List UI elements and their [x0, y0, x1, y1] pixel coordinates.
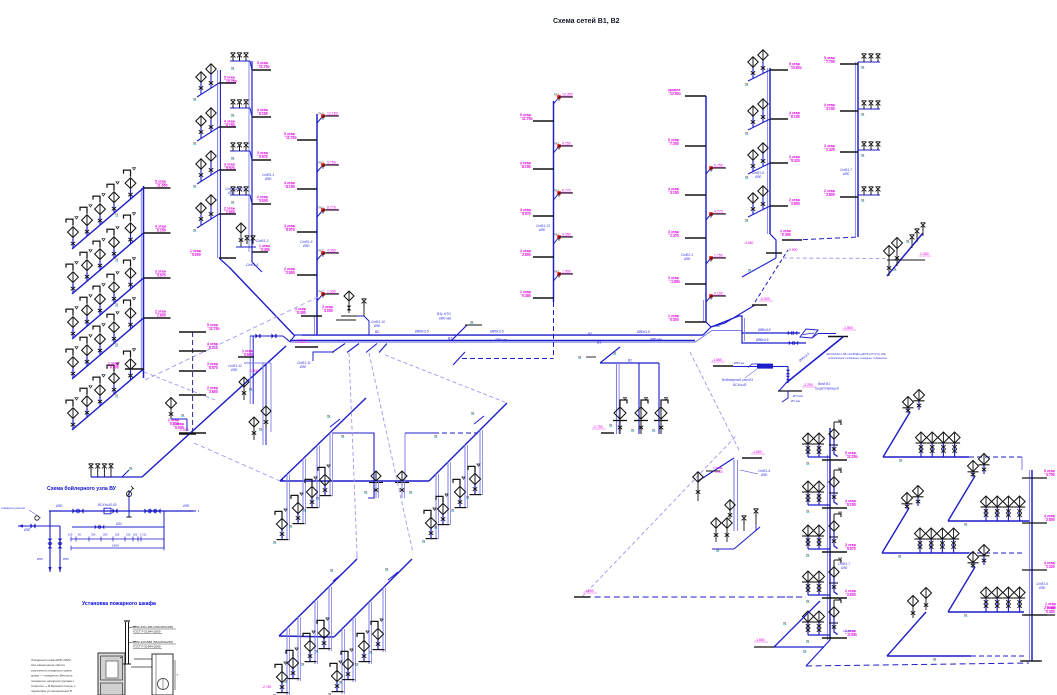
- svg-text:6.770: 6.770: [562, 189, 571, 193]
- svg-text:12.350: 12.350: [562, 93, 573, 97]
- svg-text:0.300: 0.300: [670, 318, 679, 322]
- water meter unit В1: [711, 358, 839, 403]
- corner group basins and taps: [884, 223, 932, 276]
- svg-text:Ø50: Ø50: [760, 473, 767, 477]
- svg-text:Ø80х3,5: Ø80х3,5: [636, 330, 650, 334]
- bottom middle comb C5: [887, 588, 1026, 662]
- upper basement comb with wash basins: [273, 398, 507, 544]
- riser take-off stubs under main: [297, 344, 387, 370]
- fire cabinet installation detail: [31, 600, 179, 695]
- svg-text:8.150: 8.150: [847, 503, 856, 507]
- svg-text:Ø80х3,5: Ø80х3,5: [757, 328, 771, 332]
- svg-text:3.000: 3.000: [259, 199, 268, 203]
- svg-text:Ø50: Ø50: [230, 368, 237, 372]
- svg-text:5.570: 5.570: [226, 167, 235, 171]
- svg-text:0.450: 0.450: [522, 294, 531, 298]
- svg-text:Ø50: Ø50: [842, 172, 849, 176]
- svg-text:Ø50: Ø50: [683, 257, 690, 261]
- svg-text:В1у НТО: В1у НТО: [437, 312, 451, 316]
- svg-text:0.150: 0.150: [714, 292, 723, 296]
- fire riser СтВ1-9 with hydrant outlets: [284, 112, 339, 336]
- svg-text:7.790: 7.790: [826, 60, 835, 64]
- svg-text:1.420: 1.420: [1046, 565, 1055, 569]
- svg-text:1.470: 1.470: [670, 234, 679, 238]
- svg-text:-2.750: -2.750: [593, 425, 603, 429]
- svg-text:стволом — В Верхней секции с: стволом — В Верхней секции с: [31, 684, 76, 688]
- svg-text:Ø80х3,5: Ø80х3,5: [755, 338, 769, 342]
- svg-text:11.790: 11.790: [209, 327, 220, 331]
- svg-text:Ø80 мм: Ø80 мм: [649, 338, 662, 342]
- long dashed bottom main D8: [806, 661, 1040, 666]
- svg-text:2.800: 2.800: [791, 202, 800, 206]
- apartment comb C4: [948, 545, 1056, 618]
- svg-text:переводом установленной В: переводом установленной В: [31, 689, 72, 693]
- svg-text:Ø50: Ø50: [62, 557, 69, 561]
- svg-text:АКСОНОМ 2 АВ.+4А.ВОДА+ДРУБ (СТ: АКСОНОМ 2 АВ.+4А.ВОДА+ДРУБ (СТЛ) № 25Е: [825, 352, 886, 356]
- hidden riser with floor branches: [168, 323, 220, 433]
- svg-text:4.150: 4.150: [670, 191, 679, 195]
- svg-text:ПК-?: ПК-?: [554, 234, 560, 237]
- svg-text:1.300: 1.300: [920, 252, 929, 256]
- svg-text:100: 100: [133, 532, 138, 536]
- svg-text:Ø50: Ø50: [538, 228, 545, 232]
- svg-text:ШПК-320 ВЗБ (540х650х230): ШПК-320 ВЗБ (540х650х230): [133, 640, 173, 644]
- svg-text:Ø50: Ø50: [182, 504, 189, 508]
- svg-text:2.800: 2.800: [1046, 518, 1055, 522]
- title: Схема сетей В1, В2: [553, 17, 620, 25]
- svg-text:4.750: 4.750: [1046, 473, 1055, 477]
- svg-text:8.150: 8.150: [157, 229, 166, 233]
- svg-text:СтВ1-?: СтВ1-?: [843, 629, 854, 633]
- svg-text:пожарного напорного рукава с: пожарного напорного рукава с: [31, 679, 75, 683]
- dashed riser D3: [349, 353, 357, 553]
- svg-text:1.420: 1.420: [826, 148, 835, 152]
- svg-text:Ø50 вв: Ø50 вв: [733, 361, 744, 365]
- dashed feed to lower comb D2: [194, 443, 280, 481]
- svg-text:СтВ1-3: СтВ1-3: [256, 239, 269, 243]
- long dashed basement main D7: [574, 589, 806, 597]
- svg-text:2.800: 2.800: [209, 390, 218, 394]
- svg-text:Схема бойлерного узла ВУ: Схема бойлерного узла ВУ: [47, 485, 117, 492]
- svg-text:-0.300: -0.300: [249, 369, 259, 373]
- svg-text:Ø50: Ø50: [1038, 586, 1045, 590]
- svg-text:0.450: 0.450: [297, 311, 306, 315]
- right riser СтВ1-7 with five floors: [780, 420, 858, 666]
- svg-text:5.420: 5.420: [791, 159, 800, 163]
- svg-text:7.250: 7.250: [670, 142, 679, 146]
- riser СтВ2-1 right of center: [668, 88, 726, 322]
- svg-text:СтВ1-2: СтВ1-2: [234, 187, 246, 191]
- riser СтВ1-2 column of paired wash basins: [190, 64, 238, 258]
- svg-text:Ø80х3,5: Ø80х3,5: [489, 330, 504, 334]
- valve assembly СтВ1-10 above main: [322, 291, 385, 335]
- svg-text:10.250: 10.250: [226, 80, 237, 84]
- left riser group СтВ1-1 with 5 floors of wash basins: [66, 168, 215, 430]
- svg-text:Ø50: Ø50: [23, 528, 30, 532]
- svg-text:ВСХ№40-50: ВСХ№40-50: [98, 503, 117, 507]
- diagonal feed pipe to shower group: [142, 346, 286, 477]
- dashed bypass to riser H: [453, 302, 554, 365]
- svg-text:250: 250: [91, 532, 96, 536]
- svg-text:2.800: 2.800: [226, 211, 235, 215]
- svg-text:-1.300: -1.300: [296, 339, 306, 343]
- svg-text:4.150: 4.150: [826, 107, 835, 111]
- svg-text:ПК-?: ПК-?: [319, 162, 325, 165]
- incoming main diagonal Ø80: [786, 337, 888, 383]
- svg-text:для размещения одного: для размещения одного: [31, 663, 65, 667]
- dashed link to roof tank group: [783, 237, 885, 259]
- riser СтВ1-8 with paired basins: [742, 50, 802, 277]
- svg-text:Ø??мм: Ø??мм: [792, 394, 803, 398]
- svg-text:0.000: 0.000: [192, 253, 201, 257]
- svg-text:ПК-?: ПК-?: [554, 271, 560, 274]
- svg-text:СтВ1-5: СтВ1-5: [246, 263, 259, 267]
- svg-text:-1.650: -1.650: [752, 450, 762, 454]
- svg-text:0.450: 0.450: [782, 233, 791, 237]
- svg-text:-2.750: -2.750: [262, 685, 272, 689]
- svg-text:2.800: 2.800: [847, 593, 856, 597]
- svg-text:Ø80 мм: Ø80 мм: [494, 338, 508, 342]
- svg-text:9.750: 9.750: [562, 142, 571, 146]
- dashed riser D4: [369, 353, 413, 553]
- svg-text:подключение подземных пожарных: подключение подземных пожарных гидрантов: [828, 356, 888, 360]
- far right riser СтВ1-6: [1022, 469, 1055, 661]
- svg-text:0.000: 0.000: [715, 470, 723, 474]
- svg-text:Схема сетей В1, В2: Схема сетей В1, В2: [553, 17, 620, 25]
- svg-text:17,62: 17,62: [140, 532, 147, 536]
- svg-text:0.000: 0.000: [175, 426, 184, 430]
- svg-text:11.790: 11.790: [259, 65, 270, 69]
- svg-text:8.150: 8.150: [286, 185, 295, 189]
- svg-text:-0.900: -0.900: [788, 248, 798, 252]
- svg-text:5.570: 5.570: [259, 155, 268, 159]
- svg-text:0.450: 0.450: [1046, 610, 1055, 614]
- svg-text:существующий: существующий: [815, 387, 839, 391]
- lower basement comb: [262, 553, 412, 695]
- svg-text:Ø50: Ø50: [302, 244, 310, 248]
- svg-text:4.350: 4.350: [327, 249, 336, 253]
- svg-text:ПК-?: ПК-?: [554, 94, 560, 97]
- svg-text:В1: В1: [448, 337, 452, 341]
- svg-text:ГОСТ Р 51844-2009: ГОСТ Р 51844-2009: [133, 630, 161, 634]
- svg-text:ШПК-320 НЗБ (300х300х300): ШПК-320 НЗБ (300х300х300): [133, 625, 173, 629]
- svg-text:Ø50: Ø50: [55, 504, 62, 508]
- svg-text:ПК-?: ПК-?: [554, 143, 560, 146]
- apartment comb C3: [882, 486, 1022, 559]
- svg-text:-1.650: -1.650: [584, 589, 594, 593]
- svg-text:6.150: 6.150: [791, 115, 800, 119]
- svg-text:3.000: 3.000: [324, 309, 333, 313]
- svg-text:ГОСТ Р 51844-2009: ГОСТ Р 51844-2009: [133, 645, 161, 649]
- dashed riser D5: [385, 355, 507, 403]
- svg-text:Ø50: Ø50: [754, 175, 761, 179]
- svg-text:12.150: 12.150: [327, 112, 338, 116]
- svg-text:2.800: 2.800: [826, 193, 835, 197]
- three pendant wash basins on В1: [578, 347, 668, 434]
- svg-text:Ø32: Ø32: [115, 522, 122, 526]
- group СтВ1-4 basement fixtures: [693, 450, 770, 552]
- svg-text:5.570: 5.570: [157, 274, 166, 278]
- svg-text:Ввод В1: Ввод В1: [818, 382, 830, 386]
- svg-text:Ø50: Ø50: [840, 566, 847, 570]
- riser СтВ1-9 with shower rows: [824, 54, 880, 237]
- svg-text:В2: В2: [375, 330, 379, 334]
- svg-text:1.950: 1.950: [562, 270, 571, 274]
- svg-text:5.570: 5.570: [286, 228, 295, 232]
- svg-text:2.800: 2.800: [522, 253, 531, 257]
- svg-text:Пожарный шкаф ШПК-320М: Пожарный шкаф ШПК-320М: [31, 658, 71, 662]
- svg-text:5.750: 5.750: [714, 164, 723, 168]
- svg-text:Ø? мм: Ø? мм: [790, 399, 800, 403]
- svg-text:8.150: 8.150: [522, 165, 531, 169]
- svg-text:-2.250: -2.250: [803, 383, 813, 387]
- svg-text:1400: 1400: [112, 543, 119, 547]
- svg-text:11.750: 11.750: [522, 117, 533, 121]
- dashed hidden main D1: [145, 296, 320, 380]
- svg-text:8.150: 8.150: [259, 112, 268, 116]
- svg-text:ПК-?: ПК-?: [319, 291, 325, 294]
- svg-text:Ø50: Ø50: [264, 177, 272, 181]
- svg-text:ПК-?: ПК-?: [319, 113, 325, 116]
- svg-text:крана — пожарного Вентиль,: крана — пожарного Вентиль,: [31, 674, 73, 678]
- branch -1.300 near main start: [295, 339, 318, 348]
- svg-text:-0.500: -0.500: [760, 297, 770, 301]
- svg-text:Водомерный узел В1: Водомерный узел В1: [722, 378, 753, 382]
- group of 4 showers: [89, 428, 196, 477]
- boiler unit schematic: [1, 485, 199, 572]
- svg-text:-1.850: -1.850: [712, 358, 722, 362]
- svg-text:6.770: 6.770: [327, 206, 336, 210]
- svg-text:100: 100: [68, 532, 73, 536]
- svg-text:11.750: 11.750: [286, 136, 297, 140]
- svg-text:ПК-?: ПК-?: [319, 250, 325, 253]
- svg-text:-1.850: -1.850: [843, 326, 853, 330]
- main distribution lines В1 and В2: [250, 330, 703, 345]
- svg-text:пожаротушение: пожаротушение: [1, 506, 25, 510]
- svg-text:В1: В1: [628, 358, 632, 362]
- svg-text:ПК-?: ПК-?: [319, 207, 325, 210]
- svg-text:5.570: 5.570: [209, 366, 218, 370]
- svg-text:2.800: 2.800: [286, 271, 295, 275]
- svg-text:11.250: 11.250: [847, 455, 858, 459]
- comb branch -1.650 below right column: [754, 601, 824, 653]
- svg-text:В2: В2: [588, 332, 592, 336]
- svg-text:2.800: 2.800: [157, 314, 166, 318]
- svg-text:0.450: 0.450: [261, 248, 270, 252]
- svg-text:-0.650: -0.650: [744, 241, 754, 245]
- dashed run D6b: [582, 435, 737, 597]
- svg-text:1.950: 1.950: [327, 290, 336, 294]
- svg-text:12.500: 12.500: [670, 92, 681, 96]
- svg-text:Установка пожарного шкафа: Установка пожарного шкафа: [82, 600, 156, 607]
- svg-text:11.650: 11.650: [157, 184, 168, 188]
- branch В1у НТО: [437, 312, 482, 340]
- apartment comb C1: [883, 390, 1022, 471]
- svg-text:Ø50: Ø50: [299, 365, 306, 369]
- svg-text:0.000: 0.000: [110, 366, 119, 370]
- fire riser СтВ1-13 center: [520, 93, 573, 303]
- svg-text:9.750: 9.750: [327, 161, 336, 165]
- svg-text:10.600: 10.600: [791, 66, 802, 70]
- svg-text:4.770: 4.770: [714, 210, 723, 214]
- svg-text:комплекта пожарного крана: комплекта пожарного крана: [31, 668, 72, 672]
- basement wash basins СтВ1-12: [228, 336, 271, 445]
- svg-text:0.000: 0.000: [244, 353, 253, 357]
- svg-text:ВСХ№40: ВСХ№40: [733, 383, 747, 387]
- svg-text:-1.650: -1.650: [755, 638, 765, 642]
- svg-text:5.570: 5.570: [522, 212, 531, 216]
- wash basin fixture near riser: [166, 398, 188, 432]
- riser СтВ1-3 with shower floors: [219, 53, 295, 336]
- svg-text:Ø80 мм: Ø80 мм: [438, 317, 452, 321]
- svg-text:ПК-?: ПК-?: [554, 190, 560, 193]
- svg-text:Ø80х3,5: Ø80х3,5: [414, 330, 429, 334]
- svg-text:200: 200: [115, 532, 120, 536]
- svg-text:Ø50: Ø50: [373, 324, 380, 328]
- svg-text:6.150: 6.150: [226, 124, 235, 128]
- svg-text:200: 200: [103, 532, 108, 536]
- svg-text:Ø50: Ø50: [36, 557, 43, 561]
- svg-text:-0.050: -0.050: [847, 633, 857, 637]
- dashed run D6a: [690, 352, 740, 452]
- svg-text:В1: В1: [597, 340, 601, 344]
- svg-text:5.570: 5.570: [847, 547, 856, 551]
- svg-text:-1.850: -1.850: [670, 280, 680, 284]
- apartment comb C2: [948, 454, 1030, 527]
- svg-text:4.350: 4.350: [562, 233, 571, 237]
- junction hub with device and valves: [695, 250, 856, 345]
- svg-text:150: 150: [126, 532, 131, 536]
- svg-text:1.750: 1.750: [714, 254, 723, 258]
